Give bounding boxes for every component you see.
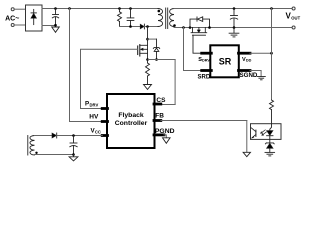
opto light arrows xyxy=(261,130,267,135)
ground primary (vcc cap) xyxy=(69,155,78,161)
wire FB xyxy=(161,120,247,122)
main MOSFET Q1 xyxy=(138,27,148,60)
pin VCC label xyxy=(91,128,101,135)
flyback controller U1 box xyxy=(107,94,155,148)
wire SRD xyxy=(184,28,202,71)
wire clamp to primary bottom xyxy=(144,26,158,28)
wire source to CS corner xyxy=(148,59,176,61)
pin SDRV label xyxy=(198,57,210,63)
node SRD tap xyxy=(182,26,185,29)
Vout- terminal xyxy=(292,26,295,29)
pin HV stub xyxy=(102,120,107,123)
node bulk cap bottom xyxy=(54,24,57,27)
wire SGND to earth xyxy=(250,71,261,77)
wire CS to pin xyxy=(161,104,175,106)
wire HV vertical xyxy=(69,9,71,122)
pin CS stub xyxy=(154,103,161,106)
AC input terminal top xyxy=(11,8,14,11)
pin SRD stub xyxy=(202,69,212,72)
optocoupler U3 box xyxy=(251,124,282,140)
node drain-zener branch xyxy=(146,38,149,41)
wire secondary lower rail xyxy=(174,27,292,29)
ground primary (sense resistor) xyxy=(144,85,152,90)
ground secondary (SGND) xyxy=(257,77,265,80)
transformer T1 primary winding xyxy=(158,9,163,27)
wire bridge output top rail xyxy=(42,8,158,10)
wire secondary top rail to Vout xyxy=(174,8,292,10)
wire vcc xyxy=(57,135,103,137)
svg-text:CS: CS xyxy=(156,97,166,104)
svg-text:OUT: OUT xyxy=(291,16,300,21)
aux winding core xyxy=(27,136,29,156)
pin PDRV stub xyxy=(102,107,107,110)
ground primary (PGND) xyxy=(163,138,171,144)
flyback controller label xyxy=(115,112,148,127)
wire feedback column xyxy=(271,9,273,101)
svg-text:Flyback: Flyback xyxy=(118,112,144,119)
capacitor C-bulk xyxy=(52,9,58,27)
node HV tap xyxy=(68,7,71,10)
opto phototransistor xyxy=(251,128,256,138)
svg-text:AC~: AC~ xyxy=(5,15,19,22)
node source xyxy=(146,58,149,61)
bridge rectifier diode symbol xyxy=(31,9,37,24)
zener shunt regulator xyxy=(265,143,274,152)
opto LED xyxy=(267,124,273,143)
diode D-vcc xyxy=(52,133,57,138)
node body diode left xyxy=(189,26,192,29)
node vcc cap top xyxy=(72,134,75,137)
Vout+ terminal xyxy=(292,7,295,10)
wire aux bottom xyxy=(35,154,74,156)
node aux ground xyxy=(72,153,75,156)
node feedback column top xyxy=(270,7,273,10)
pin FB stub xyxy=(154,119,161,122)
capacitor C-out xyxy=(230,9,237,28)
node VDD xyxy=(270,52,273,55)
ground secondary (zener) xyxy=(265,152,275,156)
svg-text:SRD: SRD xyxy=(198,74,211,80)
wire AC bottom to bridge xyxy=(14,24,25,26)
wire zener branch top xyxy=(148,38,157,40)
wire FB down xyxy=(246,121,248,153)
pin PGND stub xyxy=(154,133,164,136)
pin VCC stub xyxy=(102,134,107,137)
pin SDRV stub xyxy=(202,52,212,55)
svg-text:DRV: DRV xyxy=(90,102,99,107)
node zener bottom xyxy=(155,58,158,61)
SR body diode branch xyxy=(190,17,210,28)
resistor R-fb xyxy=(270,100,274,124)
svg-text:DD: DD xyxy=(246,59,252,63)
zener diode across Q1 xyxy=(153,39,159,59)
svg-text:HV: HV xyxy=(89,113,99,120)
wire PGND to ground xyxy=(164,135,166,138)
wire AC top to bridge xyxy=(14,8,25,10)
wire CS vertical xyxy=(174,60,176,105)
svg-text:Controller: Controller xyxy=(115,120,148,127)
transformer T1 secondary winding xyxy=(170,9,174,28)
resistor R-snubber xyxy=(118,9,122,27)
ground primary (opto emitter) xyxy=(243,152,250,156)
AC input terminal bottom xyxy=(11,24,14,27)
aux winding xyxy=(30,136,35,155)
wire VDD xyxy=(250,52,272,54)
svg-text:SR: SR xyxy=(219,56,232,66)
diode D-clamp xyxy=(140,24,144,29)
Vout label xyxy=(286,12,301,21)
capacitor C-snubber xyxy=(127,9,134,27)
svg-text:PGND: PGND xyxy=(155,128,175,135)
ground secondary (output cap) xyxy=(229,28,239,37)
capacitor C-vcc xyxy=(70,136,77,155)
node snubber bottom xyxy=(129,25,132,28)
pin PDRV label xyxy=(85,100,98,107)
aux winding phase dot xyxy=(35,152,37,154)
wire HV horizontal to pin xyxy=(70,121,103,123)
wire bridge output bottom to bulk cap xyxy=(42,25,56,27)
svg-text:CC: CC xyxy=(95,130,101,135)
SR controller U2 box xyxy=(210,45,239,77)
wire aux top to diode xyxy=(35,135,52,137)
transformer core xyxy=(166,8,168,29)
transformer secondary phase dot xyxy=(173,24,176,27)
node output cap top xyxy=(233,7,236,10)
pin VDD stub xyxy=(239,52,251,55)
svg-text:FB: FB xyxy=(155,112,164,119)
node body diode right xyxy=(208,26,211,29)
node snubber C top xyxy=(129,7,132,10)
node snubber R top xyxy=(118,7,121,10)
wire snubber bottom xyxy=(120,26,141,28)
node bulk cap top xyxy=(54,7,57,10)
wire gate routing xyxy=(81,49,138,108)
bridge rectifier BR1 box xyxy=(26,5,43,31)
svg-text:DRV: DRV xyxy=(202,59,210,63)
pin SGND stub xyxy=(239,69,251,72)
SR MOSFET Q2 xyxy=(191,28,207,54)
node drain xyxy=(146,25,149,28)
resistor R-sense xyxy=(146,60,150,85)
pin VDD label xyxy=(242,57,252,63)
node output cap bottom xyxy=(233,26,236,29)
ground primary (bulk cap) xyxy=(52,27,60,32)
svg-text:SGND: SGND xyxy=(240,72,258,79)
transformer primary phase dot xyxy=(158,10,161,13)
